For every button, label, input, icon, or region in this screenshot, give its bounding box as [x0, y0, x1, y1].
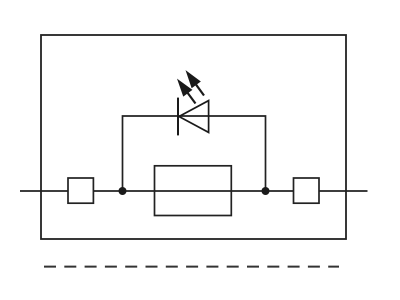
LED D1 triangle: [179, 101, 209, 133]
wire LED branch: [123, 116, 266, 191]
LED light arrow 2: [187, 72, 205, 96]
terminal clamp right: [294, 178, 320, 203]
LED light arrow 1: [178, 80, 196, 104]
LED D1 cathode bar: [177, 98, 179, 136]
node left junction: [119, 187, 127, 195]
terminal clamp left: [68, 178, 93, 203]
node right junction: [262, 187, 270, 195]
fuse F1: [155, 166, 232, 216]
dashed separator line: [44, 266, 339, 268]
wire main conductor: [20, 190, 368, 192]
component outline box: [41, 35, 346, 239]
